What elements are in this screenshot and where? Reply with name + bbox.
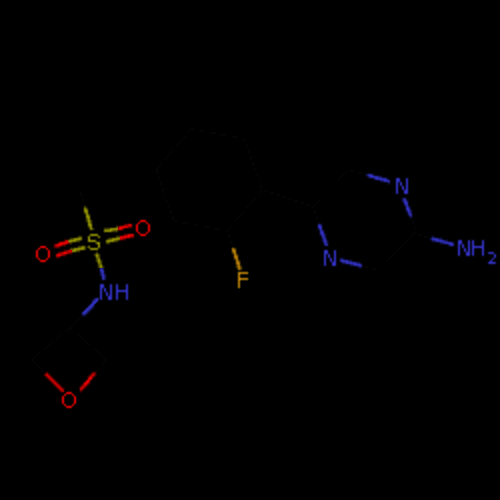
bond C5-N4 pyrazine (nitrogen half, blue) <box>317 223 329 247</box>
wire carbon half of C2-NH2 bond <box>412 232 428 238</box>
wire carbon half of C6-N1 bond <box>350 170 368 176</box>
wire carbon half of NH-oxetane bond <box>70 314 84 328</box>
atom label NH (sulfonamide nitrogen) <box>99 283 129 301</box>
wire carbon half of N4-C3 bond <box>360 264 376 270</box>
bond CH3-S (sulfur half, olive) <box>83 205 95 231</box>
atom label S (sulfonyl sulfur) <box>87 233 101 251</box>
atom label N (pyrazine N4) <box>323 249 337 267</box>
atom label NH2 (amino group) <box>457 239 497 265</box>
bond S=O left, line 1 (red/olive) <box>53 235 83 249</box>
wire carbon half of C-F bond <box>228 234 234 250</box>
atom label N (pyrazine N1) <box>395 177 409 195</box>
wire methyl carbon half of CH3-S bond <box>80 192 86 208</box>
bond oxetane O-C4 (oxygen half, red) <box>79 371 97 393</box>
bond S=O left, line 2 (red/olive) <box>55 245 87 259</box>
wire carbon half of N1-C2 bond <box>410 216 416 228</box>
bond C2-NH2 (nitrogen half, blue) <box>429 235 455 247</box>
bond S=O right, line 2 (olive/red) <box>105 233 135 245</box>
atom label O (sulfonyl oxygen left) <box>35 245 51 263</box>
bond N1-C2 pyrazine (nitrogen half, blue) <box>401 197 413 219</box>
bond C-F (fluorine half, goldenrod) <box>231 247 243 271</box>
wire oxetane C2-C3-C4 edges <box>32 328 106 360</box>
bond S=O right, line 1 (olive/red) <box>103 223 133 233</box>
wire carbon half of C5-N4 bond <box>312 206 320 226</box>
bond S-NH (olive/blue) <box>93 251 107 281</box>
bond N4-C3 pyrazine (nitrogen half, blue) <box>339 257 363 269</box>
bond NH-C3 oxetane (nitrogen half, blue) <box>81 297 101 317</box>
bond oxetane O-C2 (oxygen half, red) <box>43 371 65 393</box>
atom label O (oxetane oxygen) <box>61 391 77 409</box>
bond C6-N1 pyrazine (nitrogen half, blue) <box>365 173 391 185</box>
benzene ring (2-fluorophenyl, carbon lines on black) <box>156 128 262 232</box>
wire biaryl bond phenyl-C to pyrazine C5 <box>264 190 310 206</box>
wire pyrazine C5-C6 bond <box>314 170 348 206</box>
wire pyrazine C2-C3 bond <box>386 232 416 262</box>
wire carbon halves of oxetane C-O bonds <box>32 360 106 376</box>
atom label O (sulfonyl oxygen right) <box>135 219 151 237</box>
atom label F (fluorine) <box>237 271 249 289</box>
